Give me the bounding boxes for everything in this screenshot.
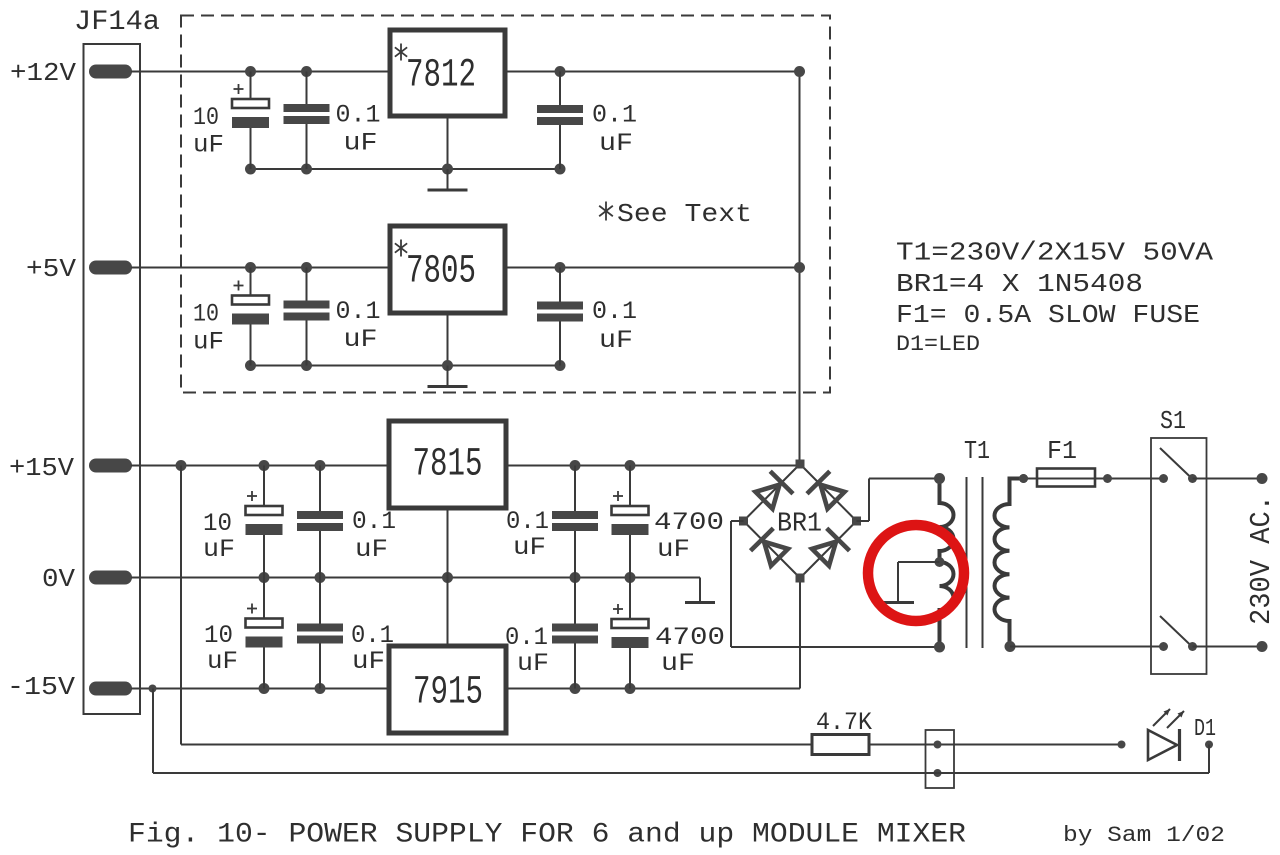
capacitor 10uF (7805 output) [193,268,269,366]
svg-text:0.1: 0.1 [505,623,548,652]
svg-text:7915: 7915 [413,671,483,716]
svg-text:7815: 7815 [413,443,483,488]
wire bridge AC right to T1 secondary top [857,479,940,522]
bridge rectifier BR1 diamond [744,464,857,578]
capacitor 10uF (7915 output) [204,578,283,689]
node bridge + corner [796,460,805,469]
fuse F1 [1037,436,1095,487]
wire resistor to LED [869,741,1126,749]
ground on 0V rail [685,578,715,603]
wire +15V pin to 7815 [131,460,389,471]
svg-text:10: 10 [204,621,233,650]
node junction dots on 7805 row [245,262,805,273]
capacitor 0.1uF (7812 output) [284,72,381,170]
pin -15V of JF14a [7,672,132,702]
capacitor 0.1uF (7815 output) [297,466,396,578]
svg-text:D1: D1 [1194,716,1216,743]
note LED spec [896,332,980,357]
wire 7805 ground rail [245,360,566,371]
svg-text:BR1: BR1 [777,510,822,540]
svg-text:4700: 4700 [655,623,725,652]
wire 7805 right side to raw DC feed [505,267,800,269]
svg-text:T1=230V/2X15V 50VA: T1=230V/2X15V 50VA [896,238,1213,268]
svg-text:uF: uF [207,647,238,676]
svg-text:F1= 0.5A SLOW FUSE: F1= 0.5A SLOW FUSE [896,300,1200,330]
transformer T1 secondary winding [934,473,954,653]
caption figure title [128,820,966,851]
ground at T1 center tap [882,562,940,603]
note fuse spec [896,300,1200,330]
wire -15V return line [153,689,1209,774]
node bridge AC right corner [852,517,861,526]
wire 7812 ground rail [245,164,566,175]
svg-text:JF14a: JF14a [74,7,160,38]
red highlight circle annotation [868,525,964,621]
switch S1 box [1151,406,1207,674]
svg-text:+5V: +5V [26,254,76,284]
svg-text:0.1: 0.1 [336,297,381,326]
svg-text:0.1: 0.1 [336,101,381,130]
wire +15V feed down to LED resistor [181,466,812,745]
ground below 7812 [428,116,468,190]
ground below 7805 [428,313,468,387]
wire raw DC vertical feed to bridge + [799,72,801,465]
svg-text:uF: uF [661,649,695,678]
wire bridge - vertical feed [799,578,801,689]
svg-text:0V: 0V [42,564,75,594]
svg-text:uF: uF [657,535,690,564]
diode BR1 upper-right [807,471,845,509]
capacitor 4700uF (positive raw) [612,466,725,578]
svg-text:4700: 4700 [654,508,724,537]
svg-text:10: 10 [193,300,219,329]
caption credit [1063,823,1225,848]
wire T1 primary bottom to S1 [1010,646,1164,648]
wire 7815 right side to bridge + [506,460,800,471]
capacitor 10uF (7815 output) [203,466,283,578]
svg-text:10: 10 [193,103,219,132]
diode BR1 upper-left [756,471,794,509]
svg-text:0.1: 0.1 [506,507,549,536]
svg-text:+15V: +15V [9,453,74,483]
node bridge - corner [796,574,805,583]
dashed optional-regulators region box [181,16,830,393]
capacitor 0.1uF (7805 output) [284,268,381,366]
svg-text:-15V: -15V [7,672,75,702]
svg-text:uF: uF [193,328,224,357]
capacitor 0.1uF (7812 input) [537,72,637,170]
wire S1 to AC terminals [1193,473,1268,652]
svg-text:10: 10 [203,509,232,538]
note transformer spec [896,238,1213,268]
capacitor 0.1uF (7805 input) [537,268,637,366]
capacitor 0.1uF (7915 output) [297,578,394,689]
svg-text:uF: uF [355,535,388,564]
svg-text:See Text: See Text [617,199,752,229]
node bridge AC left corner [739,517,748,526]
wire +5V pin to 7805 row [131,267,390,269]
wire 0V rail [131,572,700,583]
svg-text:Fig. 10- POWER SUPPLY FOR 6 an: Fig. 10- POWER SUPPLY FOR 6 and up MODUL… [128,820,966,851]
svg-text:uF: uF [513,533,546,562]
note bridge spec [896,269,1143,299]
node fuse terminals [1019,474,1112,483]
pin 0V of JF14a [42,564,132,594]
svg-text:S1: S1 [1160,406,1186,436]
svg-text:uF: uF [344,325,378,354]
capacitor 0.1uF (7815 input) [506,466,598,578]
regulator U4 7915 [389,646,506,733]
diode BR1 lower-left [751,528,789,566]
svg-text:0.1: 0.1 [592,101,637,130]
pin +5V of JF14a [26,254,132,284]
svg-text:+12V: +12V [10,58,76,88]
net label 230V AC [1245,495,1278,625]
svg-text:D1=LED: D1=LED [896,332,980,357]
capacitor 4700uF (negative raw) [612,578,726,689]
svg-text:uF: uF [352,647,385,676]
resistor R1 4.7K [812,708,872,755]
transformer T1 core [967,477,983,648]
svg-text:230V AC.: 230V AC. [1245,495,1278,625]
pin +12V of JF14a [10,58,132,88]
LED D1 [1148,709,1216,761]
regulator U3 7815 [389,421,506,508]
svg-text:uF: uF [193,131,224,160]
wire bridge AC left to T1 secondary bottom [731,521,940,647]
capacitor 0.1uF (7915 input) [505,578,598,689]
svg-text:uF: uF [599,129,633,158]
transformer T1 label [964,436,990,466]
switch S1 lower pole [1159,616,1197,651]
svg-text:uF: uF [599,326,633,355]
svg-text:0.1: 0.1 [352,507,396,536]
svg-text:7805: 7805 [406,250,476,295]
svg-text:T1: T1 [964,436,990,466]
svg-text:uF: uF [517,649,549,678]
wire +12V pin to 7812 input row [131,71,390,73]
svg-text:4.7K: 4.7K [816,708,872,737]
svg-text:7812: 7812 [406,54,476,99]
wire 7915 right side to bridge - [506,683,800,694]
pin +15V of JF14a [9,453,132,483]
regulator U1 7812 [390,30,505,116]
transformer T1 primary winding [995,474,1029,652]
connector JF14a body [74,7,160,714]
wire T1 primary top to S1 through fuse [1024,478,1164,480]
svg-text:BR1=4 X 1N5408: BR1=4 X 1N5408 [896,269,1143,299]
regulator U2 7805 [390,226,505,313]
wire -15V pin to 7915 [131,683,389,694]
svg-text:uF: uF [203,535,235,564]
svg-text:by Sam 1/02: by Sam 1/02 [1063,823,1225,848]
wire 7815 7915 common pin [447,508,449,646]
svg-text:uF: uF [344,129,378,158]
svg-text:F1: F1 [1047,436,1077,466]
wire 7812 right side to raw DC feed [505,71,800,73]
node junction dots on 7812 row [245,66,805,77]
capacitor 10uF (7812 output) [193,72,269,170]
switch S1 upper pole [1159,448,1197,483]
svg-text:0.1: 0.1 [592,297,637,326]
diode BR1 lower-right [812,528,850,566]
see text note [599,199,752,229]
connector 2-pin header [926,730,955,788]
